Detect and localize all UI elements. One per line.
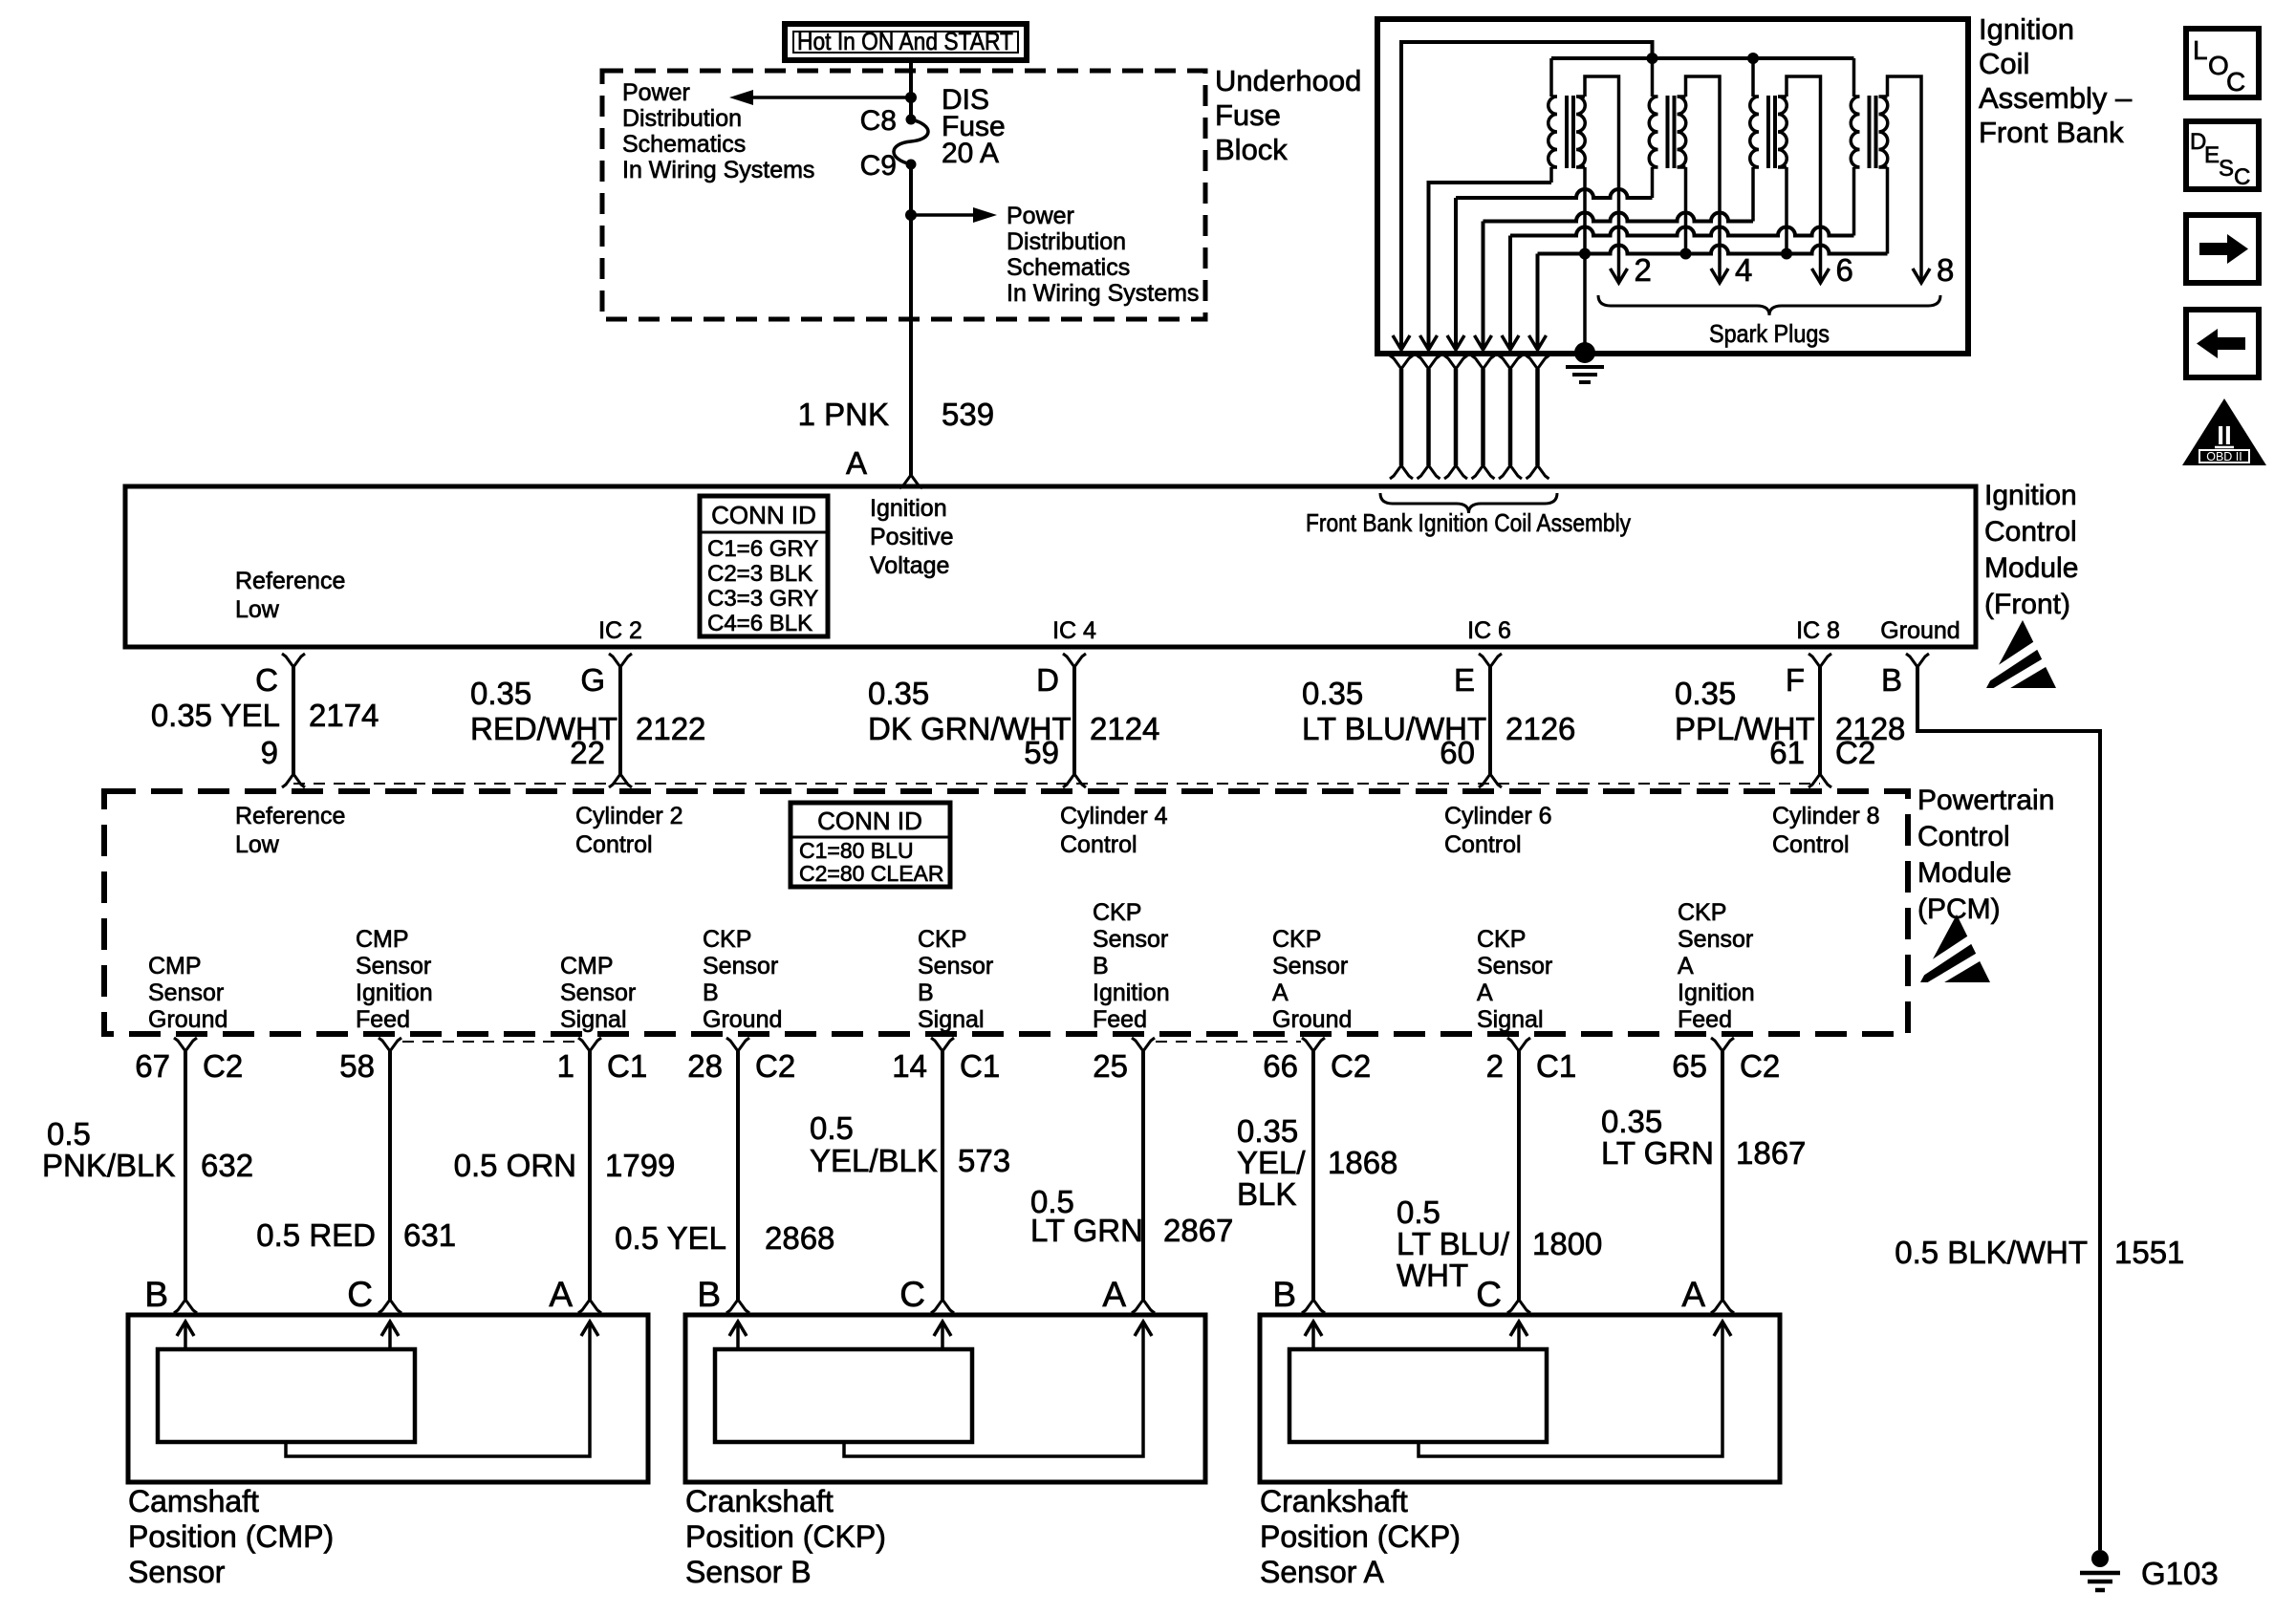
pin letter C Sensor A: [1476, 1275, 1502, 1314]
svg-text:Ignition: Ignition: [1093, 979, 1170, 1006]
wire sensor pin 2: [1517, 1051, 1521, 1300]
svg-text:Cylinder 6: Cylinder 6: [1444, 803, 1552, 829]
svg-text:C8: C8: [860, 105, 897, 137]
svg-text:Module: Module: [1984, 552, 2078, 584]
coil T1 secondary winding: [1576, 97, 1585, 167]
svg-text:2: 2: [1486, 1048, 1504, 1084]
svg-text:0.35 YEL: 0.35 YEL: [151, 698, 280, 733]
svg-text:Ignition: Ignition: [356, 979, 433, 1006]
svg-text:632: 632: [201, 1148, 253, 1183]
fuse DIS 20A element: [894, 119, 928, 164]
svg-text:CONN ID: CONN ID: [817, 807, 922, 835]
svg-text:Ignition: Ignition: [1979, 12, 2074, 46]
svg-text:Distribution: Distribution: [622, 105, 742, 132]
svg-text:8: 8: [1937, 252, 1954, 288]
wire coil to ICM 3: [1454, 369, 1459, 465]
wire cylinder control G: [618, 667, 622, 774]
svg-text:Position (CKP): Position (CKP): [1260, 1519, 1461, 1554]
pin number 61: [1769, 735, 1805, 770]
svg-text:Sensor B: Sensor B: [685, 1555, 812, 1589]
coil T3 core: [1768, 96, 1775, 168]
coil T3 primary winding: [1750, 97, 1759, 167]
svg-text:Ground: Ground: [703, 1006, 782, 1033]
coil feeder arrow 3: [1447, 335, 1464, 350]
sensor internal wire Sensor A: [1419, 1322, 1731, 1456]
arrow to power distribution right: [911, 207, 997, 223]
wire sensor pin 1: [588, 1051, 592, 1300]
wire coil to ICM 5: [1508, 369, 1513, 465]
svg-text:C: C: [1476, 1275, 1502, 1314]
wire label LT BLU/WHT 2126: [1302, 676, 1486, 746]
PCM signal label CKP Sensor B Ground: [703, 926, 782, 1033]
pin label IC 4 ICM: [1052, 617, 1096, 644]
svg-text:Hot In ON And START: Hot In ON And START: [797, 27, 1013, 55]
svg-text:Sensor: Sensor: [1678, 926, 1753, 953]
svg-text:Positive: Positive: [870, 524, 954, 550]
spark plugs label: [1709, 319, 1830, 348]
coil connector fork top 6: [1527, 355, 1549, 369]
pin letter C: [255, 662, 278, 698]
coil feeder arrow 5: [1502, 335, 1519, 350]
connector fork E at ICM: [1479, 654, 1502, 667]
pin letter A Sensor: [549, 1275, 573, 1314]
svg-text:Sensor: Sensor: [356, 953, 431, 979]
svg-text:IC 4: IC 4: [1052, 617, 1096, 644]
coil connector fork top 1: [1390, 355, 1413, 369]
power distribution text left: [622, 79, 814, 183]
spark plug arrow 6: [1812, 269, 1830, 283]
svg-text:CKP: CKP: [1093, 899, 1141, 926]
svg-text:A: A: [1477, 979, 1493, 1006]
circuit number 2122: [636, 711, 705, 746]
connector fork pin 28 at PCM: [726, 1038, 749, 1051]
connector id C2 pin 28: [755, 1048, 795, 1084]
svg-text:0.35: 0.35: [1675, 676, 1736, 711]
coil T1 primary lead top: [1549, 58, 1553, 97]
svg-text:1799: 1799: [605, 1148, 675, 1183]
svg-text:0.5 YEL: 0.5 YEL: [615, 1220, 726, 1256]
svg-text:A: A: [846, 445, 867, 481]
pin letter C Sensor: [347, 1275, 373, 1314]
coil T4 primary lead top: [1852, 58, 1856, 97]
connector fork D at ICM: [1063, 654, 1086, 667]
junction node feed: [905, 92, 917, 103]
svg-text:Sensor: Sensor: [1093, 926, 1168, 953]
svg-text:Sensor: Sensor: [148, 979, 224, 1006]
sensor arrow C: [1510, 1322, 1527, 1349]
coil T1 core: [1567, 96, 1573, 168]
svg-text:4: 4: [1735, 252, 1752, 288]
svg-text:CKP: CKP: [703, 926, 751, 953]
wire label 1 PNK 539: [798, 397, 994, 432]
connector fork pin 2 at sensor: [1507, 1300, 1530, 1313]
fuse DIS label: [942, 84, 1006, 169]
connector fork pin 28 at sensor: [726, 1300, 749, 1313]
svg-text:Sensor: Sensor: [703, 953, 778, 979]
pin number 28 PCM: [687, 1048, 723, 1084]
svg-text:LT GRN: LT GRN: [1030, 1213, 1143, 1248]
connector fork B at ICM: [1906, 654, 1929, 667]
arrow to power distribution left: [729, 90, 911, 105]
svg-text:1 PNK: 1 PNK: [798, 397, 889, 432]
connector id C2 ICM: [1835, 735, 1875, 770]
pin number 65 PCM: [1672, 1048, 1707, 1084]
coil connector fork bottom 3: [1444, 465, 1467, 479]
connector fork pin 14 at sensor: [931, 1300, 954, 1313]
sensor arrow B: [729, 1322, 747, 1349]
svg-text:60: 60: [1440, 735, 1475, 770]
svg-text:C2: C2: [755, 1048, 795, 1084]
underhood fuse block label: [1215, 64, 1361, 166]
svg-text:Signal: Signal: [918, 1006, 985, 1033]
coil case ground symbol: [1566, 367, 1604, 382]
connector fork C at PCM: [282, 774, 305, 787]
wire label 0.5 BLK/WHT 1551: [1895, 1235, 2184, 1270]
svg-text:CKP: CKP: [1272, 926, 1321, 953]
svg-text:B: B: [918, 979, 934, 1006]
svg-text:Ignition: Ignition: [1678, 979, 1755, 1006]
sensor arrow B: [1305, 1322, 1322, 1349]
svg-text:20 A: 20 A: [942, 138, 999, 169]
svg-text:539: 539: [942, 397, 994, 432]
hot in on and start box: [785, 24, 1027, 60]
svg-text:Coil: Coil: [1979, 47, 2029, 80]
pin number 9: [261, 735, 278, 770]
svg-text:Ignition: Ignition: [1984, 480, 2077, 511]
svg-text:LT BLU/: LT BLU/: [1397, 1226, 1510, 1261]
circuit number 2126: [1505, 711, 1575, 746]
svg-text:Control: Control: [1984, 516, 2077, 548]
wire sensor pin 28: [736, 1051, 740, 1300]
coil T3 primary lead top: [1751, 58, 1755, 97]
svg-text:OBD II: OBD II: [2206, 450, 2242, 463]
connector fork E at PCM: [1479, 774, 1502, 787]
connector id C1 pin 2: [1536, 1048, 1576, 1084]
front bank ignition coil assembly label: [1306, 508, 1631, 537]
svg-text:Power: Power: [1007, 203, 1074, 229]
wire label DK GRN/WHT 2124: [868, 676, 1072, 746]
connector fork pin 25 at PCM: [1132, 1038, 1155, 1051]
wire label PPL/WHT 2128: [1675, 676, 1815, 746]
PCM signal label CKP Sensor B Signal: [918, 926, 993, 1033]
icon DESC box: [2186, 121, 2259, 190]
svg-text:0.5: 0.5: [810, 1110, 854, 1146]
svg-text:66: 66: [1263, 1048, 1298, 1084]
coil T1 secondary lead bottom to ground: [1583, 167, 1587, 353]
svg-text:II: II: [2217, 420, 2232, 450]
pin letter A Sensor A: [1681, 1275, 1705, 1314]
coil connector fork top 5: [1499, 355, 1522, 369]
coil T4 secondary top lead to spark plug: [1888, 76, 1922, 283]
wire sensor pin 66: [1311, 1051, 1315, 1300]
svg-text:C2: C2: [203, 1048, 243, 1084]
svg-text:Schematics: Schematics: [1007, 254, 1130, 281]
coil T3 secondary winding: [1778, 97, 1787, 167]
Crankshaft Sensor A outer box: [1260, 1315, 1780, 1482]
wire label 0.5 YEL/BLK 573: [810, 1110, 1010, 1178]
svg-text:Reference: Reference: [235, 803, 345, 829]
svg-text:Power: Power: [622, 79, 690, 106]
svg-text:E: E: [2204, 142, 2220, 168]
svg-text:C1: C1: [1536, 1048, 1576, 1084]
svg-text:C1=6 GRY: C1=6 GRY: [707, 536, 818, 562]
wire label 0.35 LT GRN 1867: [1601, 1104, 1806, 1171]
svg-text:C2=3 BLK: C2=3 BLK: [707, 561, 812, 587]
svg-text:Assembly –: Assembly –: [1979, 81, 2133, 115]
svg-text:0.5 BLK/WHT: 0.5 BLK/WHT: [1895, 1235, 2088, 1270]
wire label 0.5 ORN 1799: [454, 1148, 676, 1183]
Sensor inner element box: [158, 1349, 415, 1442]
coil T1 secondary top lead to spark plug: [1585, 76, 1619, 283]
PCM signal label CKP Sensor B Ignition Feed: [1093, 899, 1170, 1033]
pin letter C Sensor B: [899, 1275, 925, 1314]
PCM signal label CMP Sensor Signal: [560, 953, 636, 1033]
coil connector fork top 4: [1472, 355, 1495, 369]
svg-text:Low: Low: [235, 596, 280, 623]
svg-text:C1: C1: [960, 1048, 1000, 1084]
connector fork pin 67 at PCM: [174, 1038, 197, 1051]
Camshaft Position (CMP) Sensor label: [128, 1484, 334, 1589]
svg-text:IC 2: IC 2: [598, 617, 642, 644]
circuit number 2124: [1090, 711, 1159, 746]
ignition positive bus: [1551, 56, 1854, 60]
ignition control module label: [1984, 480, 2078, 620]
svg-text:G103: G103: [2141, 1556, 2219, 1591]
wire coil feed 3: [1456, 189, 1653, 350]
coil T4 primary winding: [1851, 97, 1859, 167]
connector fork G at ICM: [609, 654, 632, 667]
svg-text:Cylinder 4: Cylinder 4: [1060, 803, 1168, 829]
spark plug arrow 2: [1611, 269, 1628, 283]
connector fork F at ICM: [1809, 654, 1831, 667]
svg-text:L: L: [2193, 35, 2208, 65]
svg-text:22: 22: [570, 735, 605, 770]
wire hot feed to fuse: [909, 60, 913, 119]
connector fork A at ICM: [899, 475, 922, 488]
coil T3 secondary lead bottom: [1785, 167, 1788, 254]
coil T1 primary winding: [1549, 97, 1557, 167]
Crankshaft Position (CKP) Sensor A label: [1260, 1484, 1461, 1589]
wire cylinder control D: [1072, 667, 1076, 774]
sensor arrow C: [934, 1322, 951, 1349]
svg-text:Front Bank Ignition Coil Assem: Front Bank Ignition Coil Assembly: [1306, 508, 1631, 537]
svg-text:Signal: Signal: [1477, 1006, 1544, 1033]
pin letter A Sensor B: [1102, 1275, 1126, 1314]
svg-text:CKP: CKP: [918, 926, 966, 953]
svg-text:Cylinder 8: Cylinder 8: [1772, 803, 1880, 829]
svg-text:2174: 2174: [309, 698, 379, 733]
conn id table PCM: [791, 803, 950, 887]
wire label 0.5 YEL 2868: [615, 1220, 834, 1256]
wire label 0.5 PNK/BLK 632: [42, 1116, 253, 1183]
svg-text:C1: C1: [607, 1048, 647, 1084]
PCM signal label CKP Sensor A Ground: [1272, 926, 1352, 1033]
svg-text:Sensor: Sensor: [918, 953, 993, 979]
junction bus T2: [1647, 53, 1658, 64]
connector fork pin 14 at PCM: [931, 1038, 954, 1051]
connector fork C at ICM: [282, 654, 305, 667]
svg-text:B: B: [703, 979, 719, 1006]
wire label RED/WHT 2122: [470, 676, 617, 746]
ground G103 label: [2141, 1556, 2219, 1591]
svg-text:Control: Control: [1772, 831, 1850, 858]
svg-text:B: B: [697, 1275, 721, 1314]
sensor arrow B: [177, 1322, 194, 1349]
coil case ground node: [1574, 342, 1595, 363]
pin number 14 PCM: [892, 1048, 927, 1084]
svg-text:58: 58: [339, 1048, 375, 1084]
svg-text:Ground: Ground: [148, 1006, 227, 1033]
coil T4 primary lead bottom: [1852, 167, 1856, 236]
svg-text:YEL/BLK: YEL/BLK: [810, 1143, 938, 1178]
wire ICM ground to G103: [1917, 667, 2100, 1550]
Crankshaft Sensor B outer box: [685, 1315, 1205, 1482]
wire coil to ICM 1: [1399, 369, 1404, 465]
svg-text:0.35: 0.35: [1601, 1104, 1662, 1139]
svg-text:Signal: Signal: [560, 1006, 627, 1033]
connector fork pin 66 at PCM: [1302, 1038, 1325, 1051]
svg-text:0.5: 0.5: [1397, 1194, 1440, 1230]
PCM signal label CKP Sensor A Signal: [1477, 926, 1552, 1033]
svg-text:S: S: [2219, 156, 2234, 182]
svg-text:YEL/: YEL/: [1237, 1145, 1306, 1180]
coil connector fork bottom 2: [1418, 465, 1440, 479]
coil T4 secondary lead bottom: [1886, 167, 1890, 254]
ground G103 symbol: [2080, 1550, 2120, 1590]
wire coil feed 4: [1484, 213, 1754, 350]
pin label IC 2 ICM: [598, 617, 642, 644]
svg-text:C: C: [2234, 164, 2250, 190]
svg-text:G: G: [580, 662, 605, 698]
svg-text:Sensor A: Sensor A: [1260, 1555, 1385, 1589]
pin letter B Sensor B: [697, 1275, 721, 1314]
Sensor B inner element box: [715, 1349, 972, 1442]
coil T2 core: [1668, 96, 1675, 168]
wire label 0.5 LT BLU/WHT 1800: [1397, 1194, 1602, 1293]
Sensor A inner element box: [1289, 1349, 1547, 1442]
pin letter B ICM: [1881, 662, 1902, 698]
pin letter B Sensor A: [1272, 1275, 1296, 1314]
svg-text:Control: Control: [1060, 831, 1137, 858]
wire label 0.35 YEL/BLK 1868: [1237, 1113, 1397, 1212]
svg-text:61: 61: [1769, 735, 1805, 770]
connector id C1 pin 14: [960, 1048, 1000, 1084]
svg-text:Spark Plugs: Spark Plugs: [1709, 319, 1830, 348]
svg-text:9: 9: [261, 735, 278, 770]
svg-text:BLK: BLK: [1237, 1176, 1296, 1212]
sensor internal wire Sensor B: [844, 1322, 1152, 1456]
svg-text:2868: 2868: [765, 1220, 834, 1256]
spark plugs brace: [1598, 295, 1940, 315]
svg-text:1551: 1551: [2114, 1235, 2184, 1270]
Cylinder 8 control label: [1772, 803, 1880, 858]
coil connector fork top 3: [1444, 355, 1467, 369]
pin label Ground ICM: [1880, 617, 1960, 644]
svg-text:67: 67: [135, 1048, 170, 1084]
svg-text:1: 1: [557, 1048, 574, 1084]
coil T2 secondary top lead to spark plug: [1686, 76, 1721, 283]
ignition coil assembly label: [1979, 12, 2133, 149]
svg-text:14: 14: [892, 1048, 927, 1084]
svg-text:Ground: Ground: [1880, 617, 1960, 644]
svg-text:Underhood: Underhood: [1215, 64, 1361, 97]
wire label 0.5 LT GRN 2867: [1030, 1184, 1233, 1248]
pin letter B Sensor: [144, 1275, 168, 1314]
svg-text:CMP: CMP: [148, 953, 202, 979]
svg-text:C3=3 GRY: C3=3 GRY: [707, 586, 818, 612]
svg-text:CMP: CMP: [356, 926, 409, 953]
svg-text:Position (CMP): Position (CMP): [128, 1519, 334, 1554]
icon OBD II triangle: [2182, 398, 2266, 465]
svg-text:Sensor: Sensor: [128, 1555, 226, 1589]
PCM signal label CMP Sensor Ground: [148, 953, 227, 1033]
svg-text:C1=80 BLU: C1=80 BLU: [799, 838, 914, 863]
svg-text:Sensor: Sensor: [560, 979, 636, 1006]
svg-text:E: E: [1454, 662, 1475, 698]
pin label IC 8 ICM: [1796, 617, 1840, 644]
svg-text:C2=80 CLEAR: C2=80 CLEAR: [799, 861, 944, 886]
svg-text:C: C: [347, 1275, 373, 1314]
svg-text:A: A: [1272, 979, 1289, 1006]
connector id C2 pin 66: [1331, 1048, 1371, 1084]
wire sensor pin 14: [941, 1051, 944, 1300]
svg-text:2867: 2867: [1163, 1213, 1233, 1248]
svg-text:Feed: Feed: [356, 1006, 410, 1033]
svg-text:0.35: 0.35: [470, 676, 531, 711]
Cylinder 2 control label: [575, 803, 683, 858]
wire sensor pin 65: [1721, 1051, 1724, 1300]
svg-text:0.35: 0.35: [1302, 676, 1363, 711]
svg-text:CONN ID: CONN ID: [711, 501, 816, 529]
svg-text:Feed: Feed: [1678, 1006, 1732, 1033]
svg-text:1800: 1800: [1532, 1226, 1602, 1261]
connector fork pin 1 at PCM: [578, 1038, 601, 1051]
pin number 58 PCM: [339, 1048, 375, 1084]
svg-text:B: B: [144, 1275, 168, 1314]
sensor arrow C: [381, 1322, 399, 1349]
icon arrow right box: [2186, 215, 2259, 283]
connector fork F at PCM: [1809, 774, 1831, 787]
junction ground T3: [1781, 248, 1792, 260]
svg-text:0.5: 0.5: [47, 1116, 91, 1151]
spark plug number 8: [1937, 252, 1954, 288]
svg-text:A: A: [549, 1275, 573, 1314]
svg-text:59: 59: [1024, 735, 1059, 770]
svg-text:Distribution: Distribution: [1007, 228, 1126, 255]
junction ground T2: [1680, 248, 1692, 260]
ignition coil assembly box: [1377, 19, 1968, 354]
svg-text:631: 631: [403, 1217, 456, 1253]
coil ground bus: [1538, 246, 1888, 351]
junction ground T1: [1579, 248, 1591, 260]
pin letter E: [1454, 662, 1475, 698]
pin letter F: [1786, 662, 1805, 698]
svg-text:D: D: [1036, 662, 1059, 698]
svg-text:Sensor: Sensor: [1272, 953, 1348, 979]
junction node below fuse: [905, 209, 917, 221]
svg-text:28: 28: [687, 1048, 723, 1084]
connector fork pin 65 at sensor: [1711, 1300, 1734, 1313]
pin label IC 6 ICM: [1467, 617, 1511, 644]
fuse terminal C9: [860, 150, 917, 182]
svg-text:CKP: CKP: [1477, 926, 1526, 953]
coil connector fork bottom 4: [1472, 465, 1495, 479]
svg-text:CMP: CMP: [560, 953, 614, 979]
wire label 0.35 YEL 2174: [151, 698, 280, 733]
wire cylinder control C: [292, 667, 295, 774]
svg-text:In Wiring Systems: In Wiring Systems: [622, 157, 814, 183]
svg-text:PNK/BLK: PNK/BLK: [42, 1148, 175, 1183]
